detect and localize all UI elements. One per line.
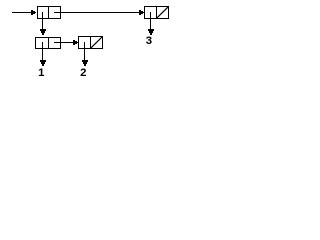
cons cell A (top-level first cell) [37,6,61,19]
svg-text:2: 2 [80,67,86,79]
cons cell C (top-level second cell, nil cdr) [144,6,169,19]
cons cell D (sublist second cell, nil cdr) [78,36,103,49]
background [0,0,180,82]
wire: B car pointer down to value 1 [40,42,46,66]
wire: A cdr pointer to cons cell C [54,10,144,15]
nil slash in C cdr cell [157,7,168,18]
wire: C car pointer down to value 3 [148,12,154,35]
svg-text:3: 3 [146,35,152,47]
wire: B cdr pointer to cons cell D [54,40,78,45]
svg-text:1: 1 [38,67,45,79]
cons cell B (sublist first cell) [35,37,61,49]
wire: D car pointer down to value 2 [82,42,88,66]
nil slash in D cdr cell [91,37,102,48]
wire: A car pointer down to cons cell B [40,12,46,35]
entry arrow (pointer into cons cell A) [12,10,36,15]
